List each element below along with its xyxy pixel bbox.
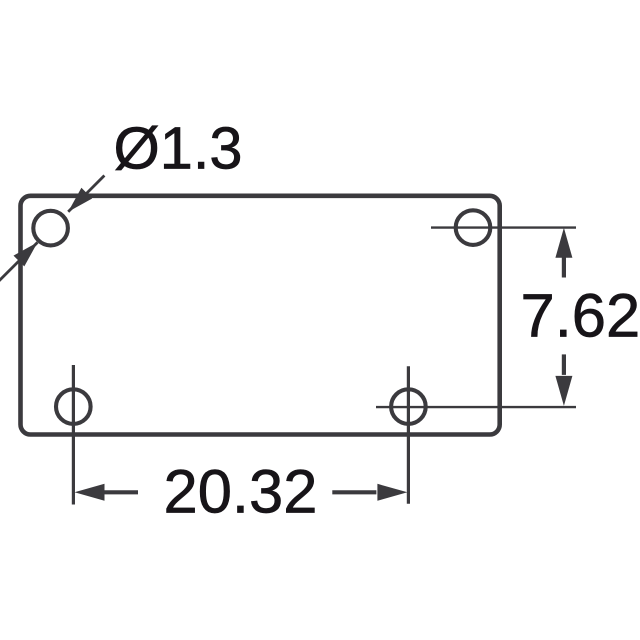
leader line upper segment — [68, 176, 104, 212]
extension line bottom-right hole vertical — [407, 366, 410, 504]
svg-text:20.32: 20.32 — [164, 458, 318, 527]
extension line bottom-left hole vertical — [72, 365, 75, 505]
dimension 20.32 arrow right — [377, 484, 407, 501]
hole bottom-left — [56, 389, 91, 424]
svg-text:Ø1.3: Ø1.3 — [114, 115, 243, 182]
dimension 7.62 shaft upper — [562, 258, 566, 278]
dimension 20.32 shaft left — [104, 490, 139, 494]
hole top-right — [456, 210, 491, 245]
dimension 7.62 arrow down — [555, 376, 572, 406]
extension line top-right hole — [431, 226, 576, 228]
hole top-left — [33, 211, 68, 246]
dimension 7.62 shaft lower — [562, 354, 566, 375]
leader arrow lower — [14, 242, 38, 266]
extension line bottom-right hole — [376, 406, 576, 408]
leader line lower segment — [0, 242, 37, 281]
dimension 7.62 arrow up — [555, 228, 572, 258]
dimension 20.32 shaft right — [332, 490, 376, 494]
leader arrow upper — [68, 188, 92, 212]
hole bottom-right — [391, 389, 426, 424]
svg-text:7.62: 7.62 — [521, 281, 640, 350]
package outline — [21, 196, 500, 435]
dimension 20.32 arrow left — [75, 484, 105, 501]
